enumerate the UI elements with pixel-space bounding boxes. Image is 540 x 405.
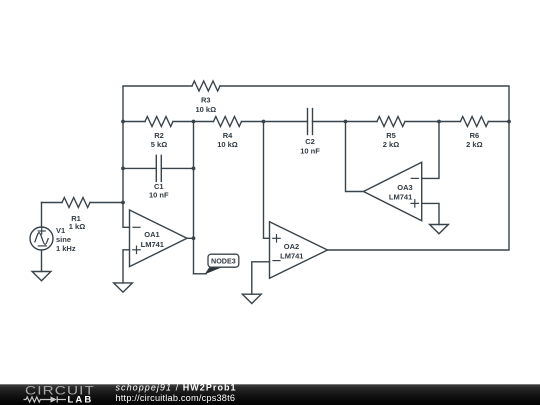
label OA2 [280, 242, 303, 261]
svg-text:1 kHz: 1 kHz [56, 244, 76, 253]
label R3 value [195, 96, 216, 114]
wire OA3 plus to ground [422, 203, 439, 224]
svg-text:LM741: LM741 [389, 193, 412, 202]
svg-text:sine: sine [56, 235, 71, 244]
label NODE3 [211, 256, 236, 265]
label R6 value [466, 131, 482, 149]
svg-text:10 nF: 10 nF [300, 146, 320, 155]
svg-text:C2: C2 [305, 137, 315, 146]
svg-text:R2: R2 [154, 131, 164, 140]
resistor R6 [460, 117, 488, 127]
wire R1 to node [90, 202, 123, 204]
svg-text:OA3: OA3 [397, 183, 412, 192]
capacitor C1 [156, 155, 161, 181]
svg-text:LM741: LM741 [280, 252, 303, 261]
ground below OA1 [114, 283, 133, 292]
wire OA3 output [346, 122, 364, 192]
svg-text:OA1: OA1 [144, 230, 159, 239]
svg-text:10 kΩ: 10 kΩ [217, 140, 238, 149]
junction dots [121, 120, 511, 241]
ground below V1 [32, 272, 51, 281]
capacitor C2 [308, 109, 313, 135]
wire rail to OA2 plus [264, 122, 270, 239]
op-amp OA1 [130, 210, 188, 267]
voltage source V1 [30, 203, 53, 272]
wire second rail [123, 121, 509, 123]
svg-text:http://circuitlab.com/cps38t6: http://circuitlab.com/cps38t6 [116, 393, 236, 403]
ground below OA3 [430, 225, 449, 234]
svg-text:LAB: LAB [68, 395, 94, 405]
wire OA2 minus to ground [252, 262, 270, 294]
svg-text:LM741: LM741 [141, 240, 164, 249]
resistor R5 [377, 117, 405, 127]
svg-text:1 kΩ: 1 kΩ [69, 222, 85, 231]
svg-text:R3: R3 [201, 96, 211, 105]
svg-text:5 kΩ: 5 kΩ [151, 140, 167, 149]
wire OA1 plus to ground [123, 250, 130, 283]
resistor R3 [192, 81, 220, 91]
svg-text:10 kΩ: 10 kΩ [195, 105, 216, 114]
node NODE3 flag [205, 254, 239, 274]
svg-text:2 kΩ: 2 kΩ [466, 140, 482, 149]
wire V1 to R1 [42, 202, 63, 204]
label OA1 [141, 230, 164, 249]
label R4 value [217, 131, 238, 149]
resistor R1 [62, 198, 90, 208]
resistor R4 [214, 117, 242, 127]
footer bar [0, 383, 540, 405]
svg-text:OA2: OA2 [284, 242, 299, 251]
label C1 value [149, 182, 169, 199]
ground below OA2 [242, 294, 261, 303]
svg-text:NODE3: NODE3 [211, 256, 236, 265]
label R2 value [151, 131, 167, 149]
wire left vertical to OA1 minus [123, 168, 130, 227]
svg-text:10 nF: 10 nF [149, 190, 169, 199]
wire OA1 output node [187, 122, 206, 274]
svg-text:schoppej91 / HW2Prob1: schoppej91 / HW2Prob1 [116, 383, 237, 393]
label C2 value [300, 137, 320, 155]
label V1 value [56, 226, 76, 253]
wire C1 branch [123, 122, 194, 169]
svg-text:R5: R5 [386, 131, 396, 140]
op-amp OA3 [364, 162, 422, 221]
svg-text:R6: R6 [470, 131, 480, 140]
op-amp OA2 [270, 222, 328, 279]
label R1 value [69, 214, 85, 231]
label OA3 [389, 183, 413, 202]
wire OA3 minus input [422, 122, 439, 179]
svg-text:V1: V1 [56, 226, 65, 235]
label R5 value [383, 131, 399, 149]
CircuitLab logo [24, 384, 96, 405]
resistor R2 [145, 117, 173, 127]
svg-text:2 kΩ: 2 kΩ [383, 140, 399, 149]
wire OA2 output to right rail [328, 122, 510, 251]
wire top loop [123, 86, 509, 122]
svg-text:R4: R4 [223, 131, 233, 140]
